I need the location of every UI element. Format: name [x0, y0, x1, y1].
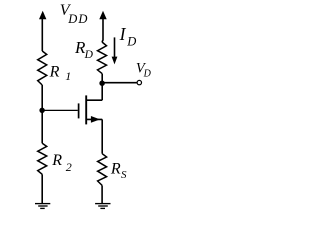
svg-text:D: D	[126, 34, 136, 48]
ground (left)	[35, 204, 50, 209]
resistor RS	[98, 154, 107, 186]
wire gate node to R2	[41, 110, 43, 143]
wire R2 to ground	[41, 174, 43, 203]
terminal VD open circle	[137, 80, 141, 84]
node gate junction dot	[39, 108, 44, 113]
svg-text:R: R	[110, 160, 121, 177]
wire gate	[42, 109, 78, 111]
transistor Q1 source arrowhead	[91, 116, 100, 123]
svg-text:I: I	[119, 24, 127, 44]
wire R1 to gate node	[41, 85, 43, 110]
VDD left arrowhead	[39, 11, 46, 20]
wire VDD right stem	[102, 18, 103, 42]
svg-text:1: 1	[65, 69, 71, 83]
wire source down to RS	[101, 119, 103, 153]
node drain junction dot	[99, 80, 105, 86]
svg-text:S: S	[121, 169, 127, 181]
wire RS to ground	[101, 185, 103, 203]
resistor R1	[38, 51, 47, 85]
wire drain node to VD terminal	[102, 82, 137, 84]
transistor Q1 gate bar	[78, 103, 80, 118]
resistor R2	[38, 143, 47, 174]
wire source horizontal	[86, 118, 102, 120]
transistor Q1 channel bar	[85, 95, 87, 124]
ground (right)	[95, 204, 110, 209]
wire RD to drain node	[101, 74, 103, 84]
svg-text:2: 2	[66, 160, 72, 174]
svg-text:D: D	[143, 69, 152, 80]
svg-text:R: R	[51, 152, 62, 169]
resistor RD	[98, 42, 107, 74]
VDD right arrowhead	[99, 11, 106, 20]
wire drain node down	[101, 83, 103, 100]
svg-text:D: D	[84, 49, 94, 61]
wire drain horizontal	[86, 99, 102, 101]
wire VDD left stem	[41, 18, 43, 51]
svg-text:DD: DD	[67, 12, 88, 26]
current arrow ID	[114, 37, 116, 58]
svg-text:R: R	[49, 63, 60, 80]
